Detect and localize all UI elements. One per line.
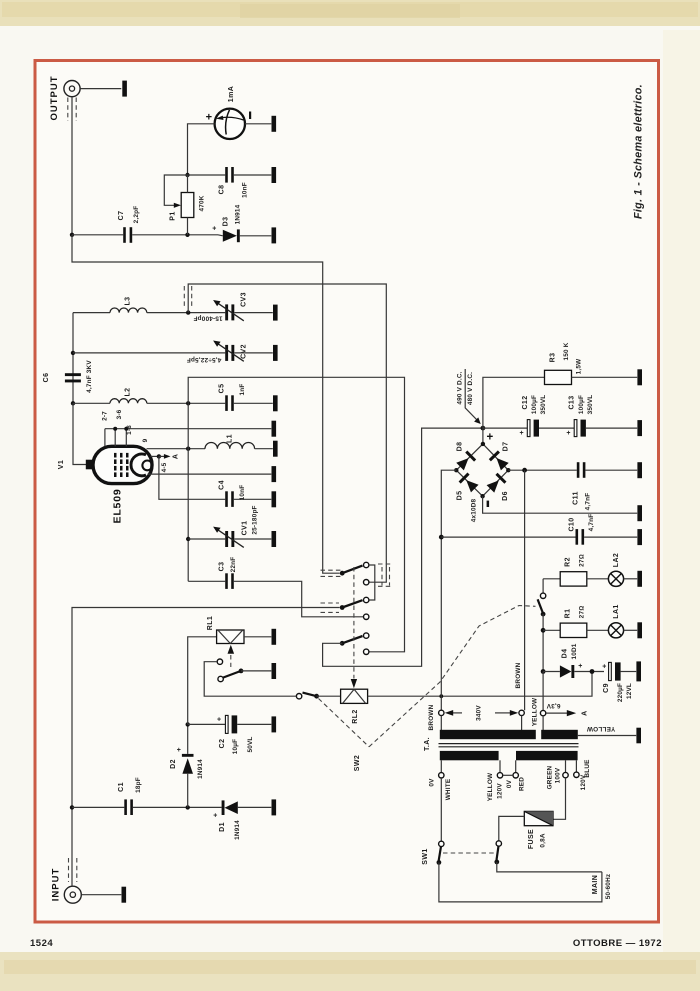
wire CV3 to ground bbox=[234, 312, 272, 314]
node L2/C5 bbox=[186, 401, 190, 405]
wire bridge AC left to transformer bbox=[441, 470, 456, 710]
svg-text:YELLOW: YELLOW bbox=[532, 697, 539, 726]
SW1 pole1 contact bbox=[439, 841, 444, 846]
node input/C1 bbox=[70, 805, 74, 809]
node D4 anode bbox=[541, 669, 546, 674]
P1 wiper arm bbox=[164, 175, 187, 208]
pin 1-8 lead bbox=[125, 429, 127, 447]
diode D4 bbox=[560, 665, 604, 678]
svg-text:120V: 120V bbox=[496, 783, 503, 799]
transformer primary winding right bbox=[516, 751, 578, 760]
svg-text:4,7nF 3KV: 4,7nF 3KV bbox=[86, 360, 93, 393]
svg-text:2,2pF: 2,2pF bbox=[133, 206, 140, 224]
inductor L2 bbox=[73, 399, 225, 404]
node cathode 4-5 bbox=[157, 454, 161, 458]
wire C8 to ground bbox=[234, 174, 271, 176]
potentiometer P1 body bbox=[181, 193, 194, 218]
SW1 pole2 lever bbox=[497, 846, 499, 860]
svg-text:C3: C3 bbox=[218, 562, 225, 572]
SW2 pole1 throw2 contact bbox=[364, 580, 369, 585]
ground (6,3V yellow) bbox=[636, 728, 641, 744]
ground (CV2) bbox=[273, 345, 278, 361]
wire R2 corner down to switch bbox=[542, 579, 544, 593]
svg-text:C5: C5 bbox=[218, 384, 225, 394]
pin 2-7 lead bbox=[104, 429, 106, 447]
svg-text:C10: C10 bbox=[569, 517, 576, 531]
svg-text:220µF: 220µF bbox=[617, 683, 624, 702]
svg-text:100µF: 100µF bbox=[531, 395, 538, 414]
svg-text:10nF: 10nF bbox=[239, 485, 246, 501]
relay coil RL1 bbox=[217, 630, 244, 644]
svg-text:INPUT: INPUT bbox=[51, 868, 62, 902]
ground (C13) bbox=[637, 420, 642, 436]
valve V1 EL509 envelope bbox=[93, 446, 152, 483]
capacitor C9 electrolytic bbox=[609, 662, 637, 680]
SW2 pole2 common node bbox=[340, 605, 345, 610]
wire pole1 throw1 to pole2 throw1 bbox=[369, 565, 375, 600]
svg-text:+: + bbox=[177, 747, 182, 754]
SW2 pole1 common node bbox=[340, 571, 345, 576]
ground (CV1) bbox=[272, 531, 277, 547]
terminal 6,3V A bbox=[540, 710, 545, 715]
svg-text:+: + bbox=[602, 663, 607, 670]
svg-text:YELLOW: YELLOW bbox=[487, 772, 494, 801]
svg-text:YELLOW: YELLOW bbox=[586, 725, 615, 732]
wire D4 anode lead bbox=[543, 671, 560, 673]
capacitor C10 bbox=[576, 529, 585, 545]
node D4 cathode / RL2 bbox=[590, 669, 595, 674]
node pin1-8 bbox=[124, 427, 128, 431]
svg-text:C2: C2 bbox=[219, 739, 226, 749]
pin 3-6 lead bbox=[114, 429, 116, 447]
wire C11 to ground bbox=[585, 469, 637, 471]
svg-text:4-5: 4-5 bbox=[161, 462, 168, 472]
diode D8 bbox=[456, 451, 477, 472]
wire CV2 to ground bbox=[234, 352, 272, 354]
SW2 pole2 throw2 contact bbox=[364, 614, 369, 619]
transformer secondary 6,3V winding bbox=[541, 730, 578, 739]
svg-text:RL2: RL2 bbox=[352, 709, 359, 723]
svg-text:470K: 470K bbox=[199, 195, 206, 211]
svg-text:BLUE: BLUE bbox=[584, 759, 591, 778]
meter minus (rotated) bbox=[249, 112, 251, 120]
wire output down to C7 row bbox=[71, 97, 73, 235]
transformer primary winding left bbox=[440, 751, 499, 760]
svg-text:L3: L3 bbox=[125, 297, 132, 306]
ground (C8) bbox=[272, 167, 277, 183]
ground (L1) bbox=[273, 441, 278, 457]
INPUT connector J2 bbox=[64, 886, 81, 903]
capacitor C2 electrolytic bbox=[225, 715, 271, 733]
wire CV1 to ground bbox=[234, 538, 271, 540]
SW1 pole1 common node bbox=[437, 860, 442, 865]
node C1/D1/D2 bbox=[186, 805, 190, 809]
relay RL2 actuating linkage dashed bbox=[353, 567, 355, 679]
svg-text:4,7nF: 4,7nF bbox=[585, 493, 592, 511]
wire P1 bottom lead bbox=[187, 218, 189, 235]
ground (C9) bbox=[636, 661, 641, 681]
wire grounded-grids row bbox=[105, 428, 271, 430]
svg-text:LA1: LA1 bbox=[613, 604, 620, 618]
wire C7 to P1 bottom node bbox=[132, 234, 218, 236]
node CV2 rail bbox=[71, 351, 75, 355]
primary tap yellow 120V bbox=[497, 760, 502, 778]
svg-text:SW1: SW1 bbox=[422, 848, 429, 864]
wire R1 row bbox=[543, 629, 560, 631]
svg-text:480 V D.C.: 480 V D.C. bbox=[467, 372, 474, 405]
variable capacitor CV2 bbox=[213, 341, 244, 362]
svg-text:2-7: 2-7 bbox=[102, 411, 109, 421]
SW2b common node bbox=[541, 612, 546, 617]
wire output jack to ground bbox=[80, 88, 121, 90]
svg-text:D6: D6 bbox=[502, 491, 509, 501]
primary tap blue 120V bbox=[574, 760, 579, 777]
wire input up to C1 row bbox=[71, 807, 73, 886]
svg-text:4,7nF: 4,7nF bbox=[588, 514, 595, 532]
node D2/C2/RL1 bbox=[186, 722, 190, 726]
wire RL2 coil to D4 node bbox=[368, 672, 592, 697]
svg-text:C12: C12 bbox=[522, 395, 529, 409]
wire C1 to D1 node bbox=[133, 806, 222, 808]
wire anode line y284 from L3 node to SW2 bbox=[188, 284, 386, 582]
wire R3 to ground bbox=[572, 376, 638, 378]
primary tap green 100V bbox=[553, 760, 568, 819]
svg-text:MAIN: MAIN bbox=[592, 875, 599, 895]
wire choke feed y377 line to SW2 pole3 throw bbox=[188, 377, 404, 652]
ground (C11) bbox=[637, 462, 642, 478]
wire C12 row bbox=[483, 427, 527, 429]
svg-text:+: + bbox=[566, 430, 571, 437]
wire R2 to LA2 bbox=[587, 578, 609, 580]
svg-text:4x10D8: 4x10D8 bbox=[470, 498, 477, 522]
svg-text:+: + bbox=[206, 111, 212, 123]
diode D5 bbox=[459, 473, 480, 494]
svg-text:340V: 340V bbox=[476, 705, 483, 721]
svg-text:+: + bbox=[212, 226, 217, 233]
node A arrow at heater bbox=[546, 710, 576, 716]
SW2 pole2 throw1 contact bbox=[364, 597, 369, 602]
variable capacitor CV3 bbox=[213, 300, 244, 321]
ground (C10) bbox=[637, 529, 642, 545]
svg-text:0V: 0V bbox=[506, 779, 513, 788]
capacitor C6 (in rail) bbox=[65, 373, 81, 382]
RL1 contact lever bbox=[223, 671, 241, 678]
SW2 pole3 common node bbox=[340, 641, 345, 646]
svg-text:SW2: SW2 bbox=[354, 755, 361, 771]
diode D6 bbox=[486, 473, 507, 494]
svg-text:R3: R3 bbox=[550, 353, 557, 363]
wire mains lead 2 bbox=[497, 862, 602, 872]
svg-text:P1: P1 bbox=[169, 211, 176, 220]
svg-text:1N914: 1N914 bbox=[235, 204, 242, 224]
wire anode rail down bbox=[187, 403, 189, 581]
capacitor C4 bbox=[225, 491, 234, 507]
lamp LA1 bbox=[608, 623, 623, 638]
svg-text:3-6: 3-6 bbox=[116, 409, 123, 419]
svg-text:27Ω: 27Ω bbox=[579, 554, 586, 567]
ground (output jack) bbox=[122, 81, 127, 97]
RL2 aux lever bbox=[303, 693, 317, 697]
node P1 bottom bbox=[185, 233, 189, 237]
svg-text:+: + bbox=[578, 663, 583, 670]
svg-text:12VL: 12VL bbox=[626, 683, 633, 699]
svg-text:D3: D3 bbox=[223, 217, 230, 227]
wire C8 row bbox=[188, 174, 226, 176]
inner page area bbox=[37, 62, 658, 921]
OUTPUT connector J1 bbox=[64, 81, 80, 97]
ground (input jack) bbox=[122, 887, 127, 903]
svg-text:GREEN: GREEN bbox=[546, 765, 553, 789]
ground (LA2) bbox=[637, 571, 642, 587]
svg-text:T.A.: T.A. bbox=[424, 737, 431, 751]
svg-text:15-400pF: 15-400pF bbox=[193, 314, 222, 321]
ground (CV3) bbox=[273, 305, 278, 321]
svg-text:OTTOBRE — 1972: OTTOBRE — 1972 bbox=[573, 938, 662, 949]
svg-text:C8: C8 bbox=[218, 185, 225, 195]
svg-text:1,5W: 1,5W bbox=[576, 358, 583, 374]
wire meter left bbox=[188, 124, 215, 175]
ground (C5) bbox=[273, 395, 278, 411]
RL1 contact common node bbox=[239, 669, 244, 674]
svg-text:25-180pF: 25-180pF bbox=[252, 505, 259, 534]
wire C4 to ground bbox=[234, 498, 271, 500]
svg-text:10µF: 10µF bbox=[232, 739, 239, 755]
node CV1 bbox=[186, 537, 190, 541]
shield dashes at CV3 feed bbox=[184, 286, 191, 307]
svg-text:0V: 0V bbox=[428, 778, 435, 787]
svg-text:0,8A: 0,8A bbox=[540, 833, 547, 847]
svg-text:R1: R1 bbox=[565, 609, 572, 619]
svg-text:C7: C7 bbox=[118, 211, 125, 221]
wire terminals to winding bbox=[441, 716, 543, 730]
wire C5 to ground bbox=[234, 402, 273, 404]
node R1 feed bbox=[541, 628, 546, 633]
svg-text:RL1: RL1 bbox=[207, 616, 214, 630]
svg-text:18pF: 18pF bbox=[135, 777, 142, 793]
wire RL1 to ground bbox=[244, 636, 271, 638]
wire cathode down to C4 bbox=[159, 456, 225, 499]
fuse FUSE 0,8A bbox=[524, 811, 553, 825]
ground (LA1) bbox=[637, 622, 642, 638]
SW2 pole3 lever bbox=[342, 636, 362, 643]
wire P1 top lead bbox=[187, 175, 189, 193]
node brown right bbox=[522, 468, 527, 473]
svg-text:C6: C6 bbox=[43, 373, 50, 383]
wire fuse left to SW1 pole2 bbox=[499, 816, 525, 840]
wire D2 branch up bbox=[187, 774, 189, 808]
ground (RL1 contact) bbox=[272, 663, 277, 679]
V1 cathode arc bbox=[131, 454, 146, 476]
rectifier bridge frame bbox=[456, 444, 508, 496]
wire C13 to ground bbox=[586, 427, 637, 429]
RL2 aux common node bbox=[314, 694, 319, 699]
svg-text:RED: RED bbox=[518, 777, 525, 791]
RL1 linkage arrow bbox=[228, 645, 235, 667]
svg-text:+: + bbox=[486, 431, 493, 443]
ground (beam plates) bbox=[272, 466, 277, 482]
svg-text:100µF: 100µF bbox=[578, 395, 585, 414]
svg-text:1524: 1524 bbox=[30, 938, 53, 949]
node bridge bottom bbox=[480, 494, 484, 498]
resistor R1 bbox=[560, 623, 587, 637]
svg-text:4,5÷22,5pF: 4,5÷22,5pF bbox=[187, 356, 222, 363]
variable capacitor CV1 bbox=[213, 527, 244, 548]
node pin3-6 bbox=[113, 427, 117, 431]
svg-text:10nF: 10nF bbox=[241, 182, 248, 198]
diode D7 bbox=[489, 450, 510, 471]
SW2 pole3 throw1 contact bbox=[364, 633, 369, 638]
wire cathode with node bbox=[151, 455, 159, 457]
V1 grid dashes bbox=[114, 453, 129, 477]
node C10 tap bbox=[439, 535, 444, 540]
node L1 bbox=[186, 447, 190, 451]
svg-text:50-60Hz: 50-60Hz bbox=[605, 874, 612, 900]
ground (grid row) bbox=[272, 421, 277, 437]
svg-text:10D1: 10D1 bbox=[571, 643, 578, 659]
wire C12 to C13 bbox=[539, 427, 574, 429]
ground (C2) bbox=[272, 716, 277, 732]
svg-text:27Ω: 27Ω bbox=[579, 606, 586, 619]
primary tap white 0V bbox=[439, 760, 444, 841]
svg-text:50VL: 50VL bbox=[247, 736, 254, 752]
wire brown right down to transformer bbox=[524, 470, 526, 710]
inductor L1 bbox=[205, 443, 273, 449]
svg-text:D1: D1 bbox=[219, 822, 226, 832]
svg-text:CV1: CV1 bbox=[241, 521, 248, 536]
wire C2 row bbox=[188, 723, 226, 725]
coax shield dashes at input bbox=[69, 858, 77, 882]
SW1 pole1 lever bbox=[439, 846, 441, 860]
svg-text:D7: D7 bbox=[502, 442, 509, 452]
svg-text:350VL: 350VL bbox=[540, 395, 547, 415]
ground (D3) bbox=[272, 227, 277, 243]
svg-text:+: + bbox=[519, 430, 524, 437]
wire LA2 to ground bbox=[624, 578, 638, 580]
transformer core bbox=[439, 744, 579, 747]
svg-text:C11: C11 bbox=[573, 491, 580, 505]
capacitor C13 electrolytic bbox=[574, 420, 586, 437]
svg-text:A: A bbox=[581, 710, 588, 715]
svg-text:C9: C9 bbox=[603, 683, 610, 693]
wire C1 row bbox=[72, 806, 124, 808]
RL1 contact throw2 bbox=[218, 676, 223, 681]
svg-text:C4: C4 bbox=[218, 480, 225, 490]
wire CV1 row bbox=[188, 538, 225, 540]
node HT positive bbox=[481, 426, 486, 431]
wire bridge minus to ground bbox=[483, 496, 638, 513]
svg-text:LA2: LA2 bbox=[613, 553, 620, 567]
ground (bridge minus) bbox=[637, 505, 642, 521]
meter M 1mA bbox=[215, 109, 245, 139]
capacitor C5 bbox=[225, 395, 234, 411]
SW2b contact bbox=[540, 593, 545, 598]
svg-text:L1: L1 bbox=[227, 434, 234, 443]
inductor L3 bbox=[73, 308, 225, 313]
wire bridge + stem bbox=[482, 428, 484, 444]
ground (meter) bbox=[272, 116, 277, 132]
svg-text:EL509: EL509 bbox=[112, 489, 124, 524]
svg-text:1nF: 1nF bbox=[239, 384, 246, 396]
V1 anode small circle bbox=[142, 461, 152, 471]
bridge minus sign bbox=[487, 501, 490, 507]
resistor R2 bbox=[560, 572, 587, 586]
svg-text:C1: C1 bbox=[118, 782, 125, 792]
svg-text:D2: D2 bbox=[170, 759, 177, 769]
svg-text:WHITE: WHITE bbox=[445, 778, 452, 800]
wire RL1 coil feed bbox=[188, 637, 217, 725]
resistor R3 bbox=[545, 370, 572, 384]
capacitor C12 electrolytic bbox=[527, 420, 539, 437]
svg-text:CV3: CV3 bbox=[240, 292, 247, 307]
svg-text:1N914: 1N914 bbox=[197, 759, 204, 779]
svg-text:Fig. 1 - Schema elettrico.: Fig. 1 - Schema elettrico. bbox=[633, 84, 645, 219]
svg-text:150 K: 150 K bbox=[563, 342, 570, 360]
svg-text:L2: L2 bbox=[125, 388, 132, 397]
wire beam plates row to ground bbox=[148, 473, 272, 475]
wire R2 feed corner bbox=[543, 578, 560, 580]
ground (C4) bbox=[272, 491, 277, 507]
red frame border bbox=[35, 61, 659, 923]
shield dashes pole1 feed bbox=[321, 570, 342, 576]
diode D3 bbox=[218, 229, 271, 242]
svg-text:C13: C13 bbox=[569, 395, 576, 409]
wire C10 row bbox=[441, 536, 575, 538]
svg-text:BROWN: BROWN bbox=[428, 704, 435, 730]
wire meter right to ground bbox=[245, 123, 271, 125]
wire C7 row bbox=[72, 234, 123, 236]
diode D1 bbox=[222, 800, 272, 815]
RL1 contact throw1 bbox=[217, 659, 222, 664]
RL2 aux contact (from RL1) bbox=[296, 694, 301, 699]
primary tap red 0V bbox=[513, 760, 518, 778]
SW2 pole1 throw1 contact bbox=[364, 562, 369, 567]
svg-text:D5: D5 bbox=[456, 491, 463, 501]
wire rail to tube grid bbox=[73, 403, 86, 464]
relay coil RL2 bbox=[341, 689, 368, 703]
wire bridge AC right / C11 row bbox=[508, 469, 577, 471]
SW1 linkage dashed bbox=[443, 852, 496, 854]
node P1 top / C8 bbox=[185, 173, 189, 177]
node RL2 wire / transformer brown bbox=[439, 694, 443, 698]
node A arrow at cathode bbox=[159, 454, 171, 459]
capacitor C1 bbox=[124, 799, 133, 815]
svg-text:+: + bbox=[217, 717, 222, 724]
svg-text:R2: R2 bbox=[565, 557, 572, 567]
capacitor C11 bbox=[577, 462, 586, 478]
svg-text:A: A bbox=[172, 454, 179, 459]
wire C3 to SW2 pole2 throw bbox=[234, 581, 363, 617]
SW2b lever bbox=[538, 599, 544, 613]
svg-text:100V: 100V bbox=[554, 767, 561, 783]
capacitor C8 bbox=[225, 167, 234, 183]
ground (RL1 coil) bbox=[272, 629, 277, 645]
svg-text:V1: V1 bbox=[58, 460, 65, 469]
svg-text:1mA: 1mA bbox=[228, 86, 235, 102]
transformer secondary 340V winding bbox=[440, 730, 536, 739]
svg-text:+: + bbox=[213, 813, 218, 820]
svg-text:FUSE: FUSE bbox=[528, 829, 535, 849]
340V measure arrows bbox=[445, 710, 518, 716]
terminal 340V brown left bbox=[439, 710, 444, 715]
lamp LA2 bbox=[608, 571, 623, 586]
wire input jack to ground bbox=[82, 894, 122, 896]
svg-text:D8: D8 bbox=[456, 442, 463, 452]
wire switch to R1 row and D4 bbox=[542, 614, 544, 671]
wire RL1 contact to ground bbox=[241, 670, 271, 672]
wire HT node up to R3 row bbox=[483, 377, 545, 428]
SW2 pole3 throw2 contact bbox=[364, 649, 369, 654]
SW1 pole2 contact bbox=[496, 841, 501, 846]
